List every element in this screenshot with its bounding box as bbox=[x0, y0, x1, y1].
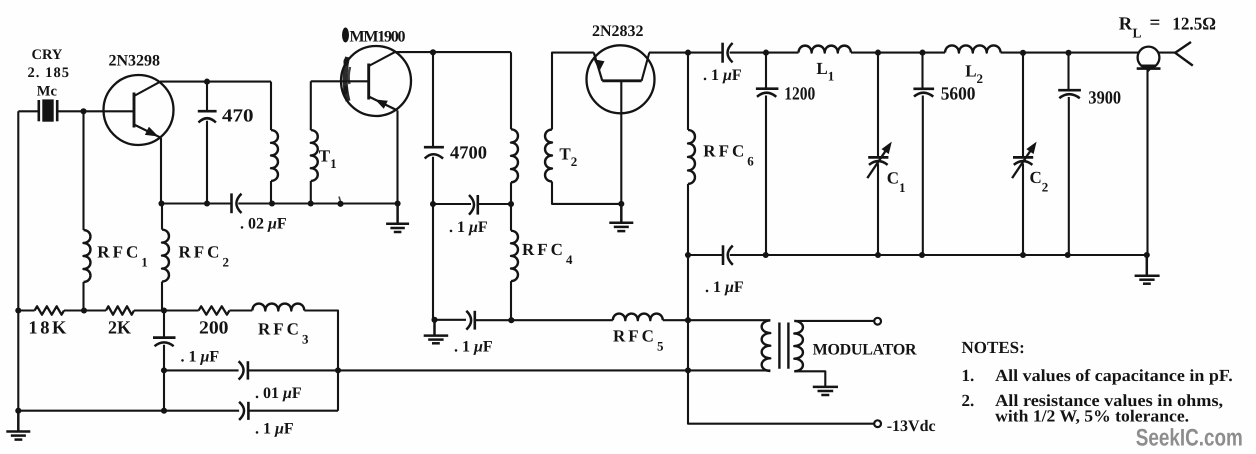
inductor T1 secondary bbox=[311, 130, 318, 181]
capacitor C2 (variable) bbox=[1012, 53, 1037, 255]
wire: 4700 bottom lead down to bottom junction bbox=[432, 157, 434, 320]
svg-text:RFC6: RFC6 bbox=[703, 142, 754, 169]
ground under 2N2832 base bbox=[609, 204, 633, 231]
svg-text:. 1 μF: . 1 μF bbox=[181, 349, 220, 366]
svg-text:T2: T2 bbox=[559, 144, 577, 169]
svg-text:L1: L1 bbox=[816, 59, 834, 84]
svg-text:2N3298: 2N3298 bbox=[109, 53, 161, 70]
svg-text:. 02 μF: . 02 μF bbox=[240, 216, 287, 233]
antenna symbol bbox=[1175, 42, 1193, 66]
node: RFC4 bottom junction bbox=[508, 317, 514, 323]
resistor 200 bbox=[199, 306, 230, 314]
wire: modulator secondary top to terminal bbox=[794, 320, 874, 322]
crystal CRY 2.185 Mc bbox=[39, 99, 57, 121]
svg-text:5600: 5600 bbox=[941, 85, 976, 105]
node: coil1 bottom junction bbox=[269, 200, 275, 206]
capacitor 1200 (shunt) bbox=[756, 53, 779, 255]
node: y370 junction under cap bbox=[161, 367, 167, 373]
svg-text:-13Vdc: -13Vdc bbox=[887, 418, 936, 435]
wire: 2N2832 base down bbox=[620, 81, 622, 204]
wire: emitter rail y=203.5 left part bbox=[161, 202, 231, 204]
load meter RL circle bbox=[1137, 47, 1161, 72]
node: C2 bottom junction bbox=[1020, 252, 1026, 258]
inductor RFC4 bbox=[511, 231, 518, 281]
node: T1 bottom junction bbox=[308, 200, 314, 206]
node: 3900 top junction bbox=[1065, 50, 1071, 56]
wire: crystal left lead bbox=[18, 110, 38, 112]
wire: T2 primary to RFC4 bbox=[510, 182, 512, 230]
wire: RFC1 bottom lead bbox=[82, 282, 84, 311]
node: base/T2 junction bbox=[618, 201, 624, 207]
wire: .1uF left lead bbox=[433, 203, 471, 205]
wire: bottom rail right bbox=[730, 254, 1147, 256]
wire: rail from .02uF to MM1900 emitter ground bbox=[238, 202, 397, 204]
svg-text:MM1900: MM1900 bbox=[350, 29, 406, 46]
svg-text:2N2832: 2N2832 bbox=[592, 23, 644, 40]
capacitor 470 bbox=[198, 111, 217, 122]
svg-text:T1: T1 bbox=[319, 147, 337, 172]
node: 5600 top junction bbox=[919, 50, 925, 56]
scan blob before MM1900 label bbox=[342, 28, 349, 43]
wire: RL down to bottom rail bbox=[1146, 70, 1148, 255]
node: T2 primary mid junction bbox=[508, 201, 514, 207]
wire: emitter of 2N3298 down bbox=[160, 138, 162, 204]
svg-text:2.: 2. bbox=[962, 391, 975, 410]
wire: T2 secondary top corner bbox=[552, 53, 594, 130]
wire: T2 secondary bottom to base node bbox=[552, 182, 621, 204]
notes bbox=[962, 338, 1233, 426]
svg-text:18K: 18K bbox=[28, 319, 67, 339]
capacitor .1uF (series top) bbox=[723, 43, 733, 63]
wire: L1 to L2 bbox=[851, 52, 945, 54]
inductor RFC3 bbox=[252, 304, 304, 311]
transistor Q1 2N3298 bbox=[104, 75, 174, 145]
node: C2 top junction bbox=[1020, 50, 1026, 56]
inductor L2 bbox=[945, 45, 1001, 52]
svg-text:C1: C1 bbox=[887, 168, 906, 195]
wire: T1 secondary bottom lead bbox=[310, 181, 312, 204]
terminal modulator bbox=[874, 318, 881, 325]
svg-text:RFC4: RFC4 bbox=[522, 240, 573, 267]
inductor L1 bbox=[799, 46, 851, 53]
ground under MM1900 emitter bbox=[386, 204, 409, 233]
svg-text:RFC3: RFC3 bbox=[258, 320, 309, 347]
node: RL bottom junction bbox=[1144, 252, 1150, 258]
wire: bottom rail to cap bbox=[688, 254, 723, 256]
svg-text:200: 200 bbox=[199, 319, 229, 339]
node: MM1900 emitter ground junction bbox=[395, 200, 401, 206]
svg-text:4700: 4700 bbox=[450, 144, 487, 164]
node: y410 junction under cap bbox=[161, 408, 167, 414]
svg-text:. 1 μF: . 1 μF bbox=[255, 421, 294, 438]
resistor 18K bbox=[35, 306, 64, 314]
inductor RFC2 bbox=[162, 230, 169, 282]
wire: RFC6 vertical to modulator level bbox=[688, 255, 874, 424]
capacitor .1uF (series y204) bbox=[469, 195, 478, 215]
wire: T1 primary top lead bbox=[270, 82, 272, 131]
svg-text:3900: 3900 bbox=[1088, 89, 1121, 109]
node: corner junction y370 bbox=[335, 367, 341, 373]
inductor RFC5 bbox=[613, 314, 663, 321]
svg-text:NOTES:: NOTES: bbox=[962, 338, 1025, 357]
ground under 4700 line bbox=[424, 320, 449, 344]
capacitor C .02uF bbox=[232, 193, 242, 213]
wire: T1 primary bottom lead bbox=[270, 181, 272, 204]
capacitor 3900 (shunt) bbox=[1058, 53, 1081, 255]
svg-text:CRY: CRY bbox=[32, 47, 63, 63]
wire: crystal to 2N3298 base bbox=[58, 110, 134, 112]
node: 4700 ground junction bbox=[431, 317, 437, 323]
node: RFC1 bottom junction bbox=[81, 307, 87, 313]
svg-text:1.: 1. bbox=[962, 366, 975, 385]
node: RFC6 top junction bbox=[685, 50, 691, 56]
capacitor .1uF (shunt below rail) bbox=[153, 311, 176, 411]
wire: 470 bottom lead bbox=[206, 121, 208, 204]
transformer core bbox=[779, 323, 788, 369]
node: C1 bottom junction bbox=[875, 252, 881, 258]
wire: RFC3 to corner down bbox=[304, 311, 338, 411]
svg-text:. 1 μF: . 1 μF bbox=[449, 219, 488, 236]
svg-text:2. 185: 2. 185 bbox=[28, 65, 70, 81]
wire: RL to antenna bbox=[1158, 52, 1175, 54]
svg-text:1200: 1200 bbox=[784, 85, 815, 105]
wire: bus to 18K bbox=[18, 309, 34, 311]
node: C1 top junction bbox=[875, 50, 881, 56]
svg-text:RFC2: RFC2 bbox=[179, 243, 229, 270]
capacitor .1uF (series bottom right) bbox=[723, 245, 733, 265]
svg-text:RFC1: RFC1 bbox=[97, 243, 147, 270]
wire: modulator secondary bottom to ground bbox=[794, 371, 825, 386]
wire: bottom row to corner bbox=[249, 410, 338, 412]
svg-text:Mc: Mc bbox=[37, 84, 58, 100]
wire: L2 to RL bbox=[1001, 52, 1139, 54]
node: -13V junction bbox=[685, 367, 691, 373]
node: scan blob on rail bbox=[337, 201, 343, 207]
capacitor .01uF (series) bbox=[239, 361, 248, 379]
inductor RFC6 bbox=[688, 53, 695, 255]
wire: MM1900 collector rail bbox=[394, 51, 511, 53]
wire: .1uF right lead bbox=[478, 203, 511, 205]
svg-text:RFC5: RFC5 bbox=[613, 327, 664, 354]
wire: 2N2832 collector to .1uF bbox=[649, 52, 722, 54]
svg-text:L2: L2 bbox=[965, 62, 983, 87]
svg-text:MODULATOR: MODULATOR bbox=[813, 342, 917, 359]
inductor T1 primary bbox=[271, 130, 278, 181]
svg-text:12.5Ω: 12.5Ω bbox=[1172, 14, 1216, 34]
svg-text:2K: 2K bbox=[108, 319, 132, 339]
wire: 4700 top lead bbox=[432, 52, 434, 146]
node: 470 bottom junction bbox=[204, 200, 210, 206]
wire: MM1900 emitter down to ground bbox=[396, 111, 398, 204]
capacitor 5600 (shunt) bbox=[913, 53, 934, 255]
node: bottom-left junction bbox=[15, 408, 21, 414]
ground modulator bbox=[813, 387, 838, 395]
node: emitter junction bbox=[158, 200, 164, 206]
node: modulator top-left junction bbox=[685, 317, 691, 323]
wire: y320 row: ground node to cap bbox=[435, 319, 467, 321]
wire: 2K to 200 bbox=[134, 309, 199, 311]
node: 3900 bottom junction bbox=[1065, 252, 1071, 258]
svg-text:SeekIC.com: SeekIC.com bbox=[1136, 425, 1243, 452]
svg-text:C2: C2 bbox=[1030, 168, 1049, 195]
scan smudge left of MM1900 bbox=[345, 57, 348, 101]
wire: 18K to 2K bbox=[64, 309, 106, 311]
node: 1200 top junction bbox=[763, 50, 769, 56]
svg-text:R: R bbox=[1119, 15, 1133, 35]
transformer MODULATOR right winding bbox=[794, 321, 803, 371]
node: left bus bias junction bbox=[15, 307, 21, 313]
svg-text:. 1 μF: . 1 μF bbox=[454, 339, 493, 356]
wire: bottom row y410 left bbox=[18, 410, 239, 412]
transformer MODULATOR left winding bbox=[762, 320, 771, 371]
ground at far right bbox=[1135, 255, 1160, 284]
node: RFC6 bottom junction bbox=[685, 252, 691, 258]
svg-text:. 1 μF: . 1 μF bbox=[703, 67, 742, 84]
capacitor .1uF (series bottom) bbox=[239, 402, 248, 420]
node: collector/470 junction bbox=[204, 79, 210, 85]
svg-text:. 1 μF: . 1 μF bbox=[705, 279, 744, 296]
node: base/RFC1 junction bbox=[80, 108, 86, 114]
capacitor 4700 bbox=[424, 147, 444, 158]
inductor T2 primary bbox=[511, 129, 518, 182]
wire: 2N3298 collector rail bbox=[160, 81, 271, 83]
capacitor .1uF (series y320) bbox=[466, 311, 475, 330]
wire: RFC2 bottom lead bbox=[162, 282, 164, 311]
wire: T1 secondary top lead to MM1900 base bbox=[311, 81, 369, 130]
wire: y370 row left bbox=[164, 369, 239, 371]
wire: T2 primary top lead bbox=[510, 52, 512, 129]
wire: RFC5 to modulator bbox=[663, 319, 771, 321]
capacitor C1 (variable) bbox=[867, 53, 892, 255]
wire: RFC1 top lead bbox=[82, 111, 84, 230]
node: 1200 bottom junction bbox=[763, 252, 769, 258]
labels bbox=[28, 47, 70, 99]
terminal -13Vdc bbox=[874, 420, 881, 427]
node: RFC2 bottom / .1uF junction bbox=[161, 307, 167, 313]
node: 5600 bottom junction bbox=[919, 252, 925, 258]
wire: y320 row to RFC5 bbox=[475, 319, 613, 321]
svg-text:470: 470 bbox=[222, 107, 254, 127]
wire: 470 top lead bbox=[206, 82, 208, 110]
wire: 200 to RFC3 bbox=[230, 309, 253, 311]
inductor RFC2 top lead bbox=[161, 204, 163, 230]
resistor 2K bbox=[106, 306, 134, 314]
transistor Q2 MM1900 bbox=[341, 46, 411, 116]
transistor Q3 2N2832 bbox=[587, 45, 655, 113]
ground bottom-left bbox=[6, 411, 30, 440]
inductor RFC1 bbox=[84, 230, 91, 282]
wire: y370 row to modulator bbox=[248, 369, 770, 371]
node: 4700 top junction bbox=[430, 49, 436, 55]
wire: top rail to L1 bbox=[730, 52, 799, 54]
svg-text:=: = bbox=[1150, 13, 1161, 34]
inductor T2 secondary bbox=[545, 130, 552, 182]
svg-text:. 01 μF: . 01 μF bbox=[255, 385, 302, 402]
wire: RFC4 bottom lead bbox=[510, 281, 512, 320]
svg-text:All values of capacitance in p: All values of capacitance in pF. bbox=[995, 366, 1233, 385]
svg-text:L: L bbox=[1133, 26, 1142, 41]
node: 4700/.1uF junction bbox=[430, 201, 436, 207]
wire: left vertical bus from crystal down to bottom ground bbox=[17, 111, 19, 411]
svg-text:with 1/2 W, 5% tolerance.: with 1/2 W, 5% tolerance. bbox=[995, 407, 1189, 426]
